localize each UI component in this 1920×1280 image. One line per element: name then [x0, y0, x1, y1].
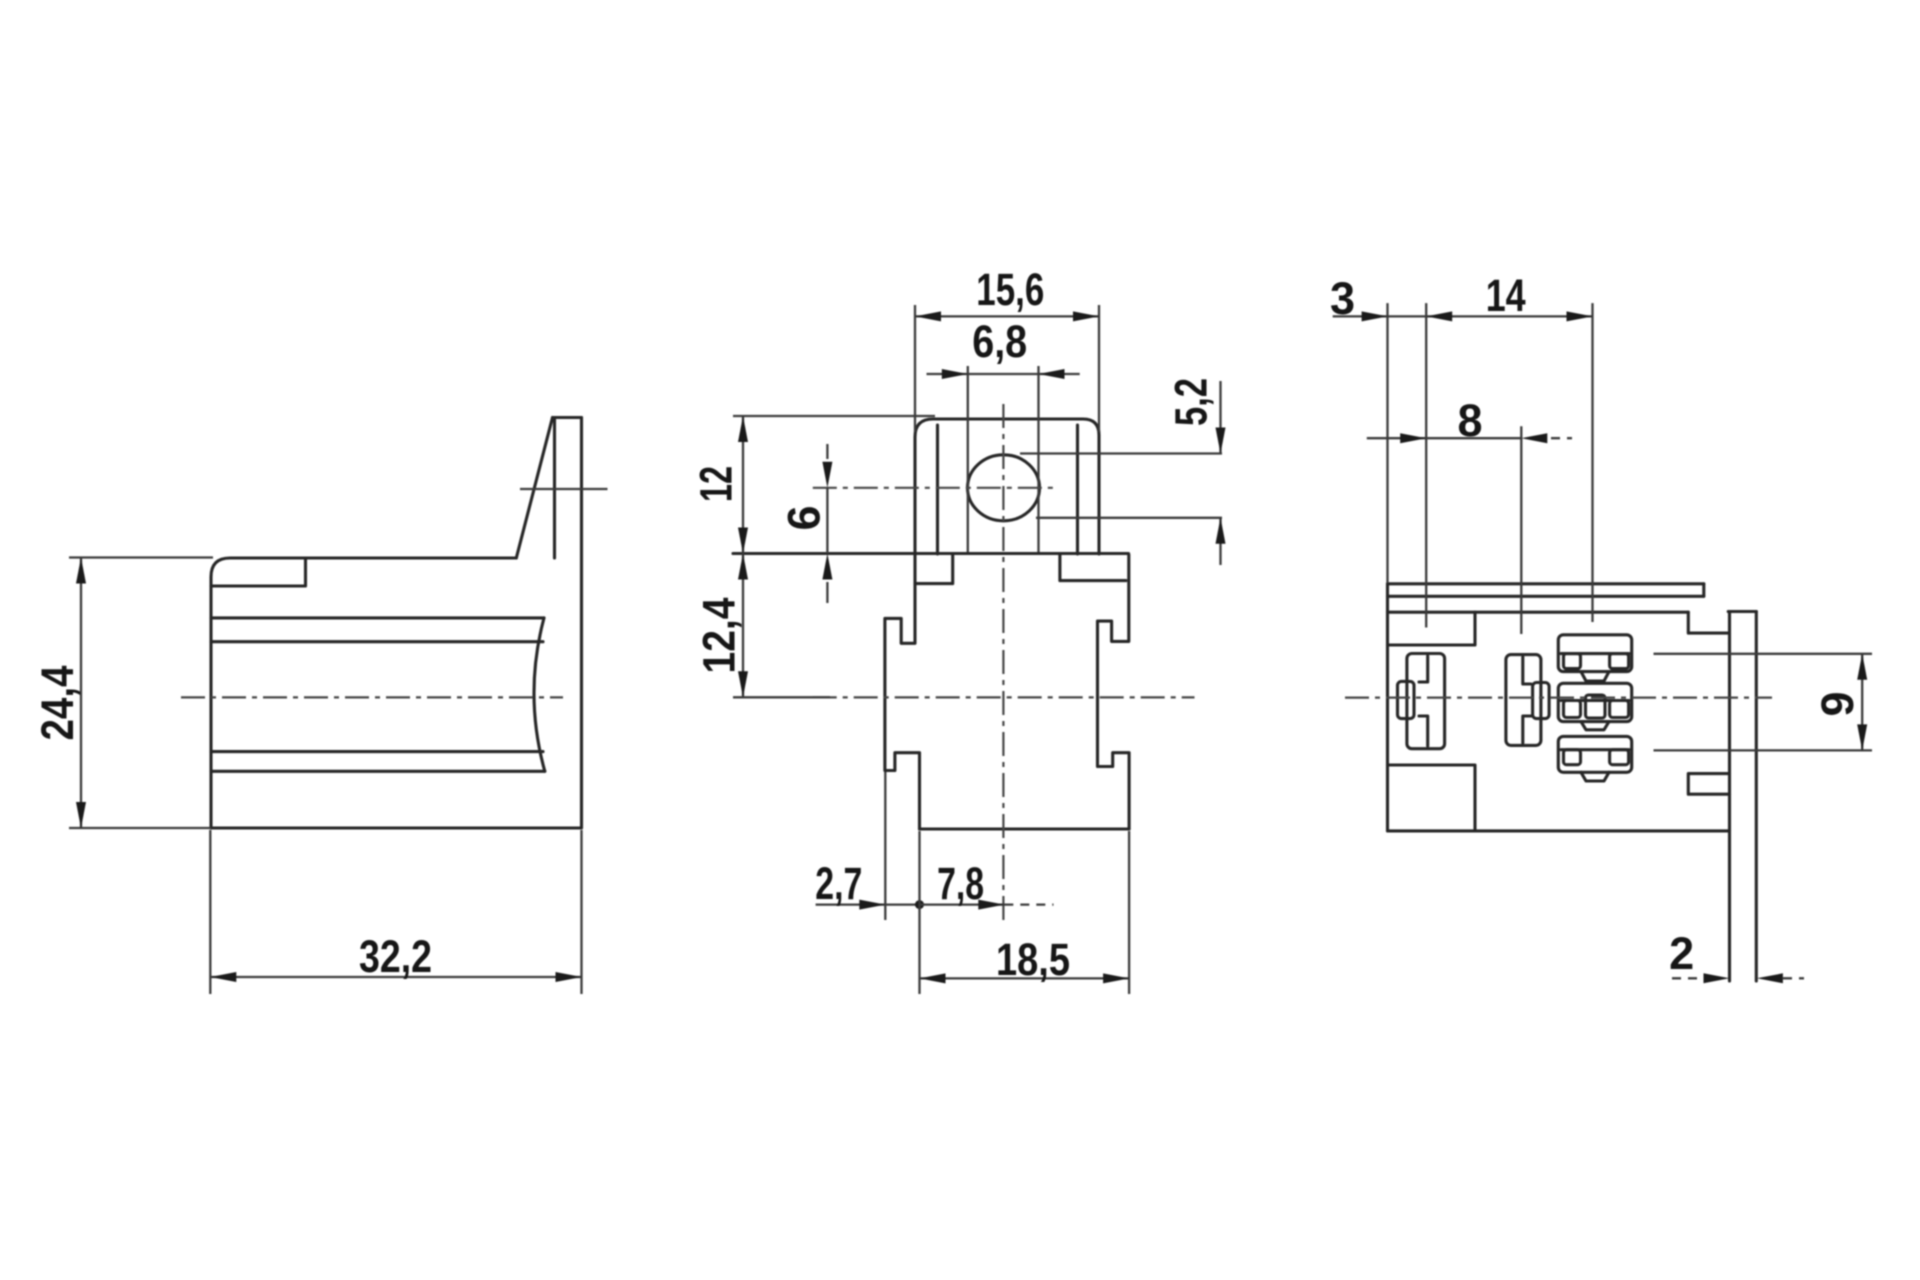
dim 5.2 dimension line lower — [1219, 518, 1221, 565]
latch tab top edge — [553, 416, 582, 419]
interior step bottom-left — [1388, 765, 1476, 831]
body left edge — [1386, 584, 1389, 831]
terminal slot 3 corner box left — [1564, 654, 1581, 669]
inner groove line C — [211, 750, 543, 753]
dim 2 trailing dashes — [1783, 977, 1804, 979]
top edge right connector — [1702, 584, 1705, 597]
dim 24.4 bottom extension line — [69, 827, 211, 829]
svg-text:14: 14 — [1486, 270, 1526, 321]
dim 6 dimension line — [826, 488, 828, 554]
svg-text:6,8: 6,8 — [972, 316, 1027, 367]
dim 2 arrow right — [1757, 973, 1783, 983]
body outline side view — [211, 418, 582, 829]
broken-out section curve — [534, 618, 545, 771]
inner groove line D — [211, 770, 545, 773]
horizontal centerline top view — [1345, 696, 1772, 698]
shoulder line / 12.4 extension — [733, 552, 1129, 555]
vertical centerline front view — [1002, 404, 1004, 922]
svg-text:7,8: 7,8 — [937, 858, 984, 909]
dim 5.2 dimension line upper — [1219, 381, 1221, 454]
dim 12.4 bottom extension line — [733, 696, 830, 698]
svg-text:12,4: 12,4 — [694, 598, 745, 674]
terminal slot 3 outline — [1558, 635, 1631, 672]
dim 5.2 lower pointer line — [1036, 517, 1222, 519]
dim 12 top extension line — [733, 415, 935, 417]
terminal slot 4 corner box right — [1610, 701, 1629, 718]
svg-text:6: 6 — [779, 505, 830, 530]
dim 32.2 dimension line — [210, 976, 581, 978]
right body profile — [1098, 555, 1130, 830]
terminal slot 1 inner line lower — [1419, 716, 1428, 746]
dim 9 lower pointer line — [1654, 749, 1873, 751]
dim 12.4 dimension line — [742, 554, 744, 698]
top edge line 1 — [1388, 582, 1704, 585]
dim 18.5 dimension line — [920, 977, 1130, 979]
dim 15.6 left extension line — [914, 305, 916, 432]
terminal slot 3 bottom tab — [1581, 672, 1609, 681]
svg-text:15,6: 15,6 — [976, 264, 1044, 315]
right notch below shoulder — [1060, 554, 1126, 581]
dim 8 trailing dashes — [1551, 437, 1572, 439]
right side upper notch — [1688, 612, 1729, 633]
bracket inner wall left — [936, 425, 939, 554]
dim 8 right extension line — [1520, 426, 1522, 634]
svg-text:12: 12 — [691, 466, 742, 502]
svg-text:24,4: 24,4 — [32, 666, 83, 741]
dim 14 right extension line — [1591, 303, 1593, 622]
horizontal centerline front view — [813, 696, 1195, 698]
dim 15.6 arrow left — [915, 311, 941, 321]
hole tangent extension line left — [967, 366, 969, 553]
dim 3 left extension line — [1386, 303, 1388, 583]
left body profile — [885, 584, 920, 829]
top edge line 3 — [1388, 611, 1689, 614]
terminal slot 1 inner line upper — [1419, 656, 1428, 682]
dim 3 arrow — [1362, 311, 1388, 321]
dim 14 dimension line — [1426, 315, 1592, 317]
dim 6 leader dashes top — [826, 444, 828, 459]
terminal slot 1 outline — [1407, 654, 1445, 749]
terminal slot 4 corner box left — [1564, 701, 1581, 718]
dim 15.6 right extension line — [1098, 305, 1100, 432]
terminal slot 4 center box — [1586, 695, 1606, 718]
top edge line 2 — [1388, 595, 1704, 598]
dim 12.4 arrow up — [738, 554, 748, 580]
svg-text:2,7: 2,7 — [815, 858, 862, 909]
dim 8 dimension line — [1367, 437, 1522, 439]
hole tangent extension line right — [1037, 366, 1039, 553]
dim 12 arrow up — [738, 416, 748, 442]
terminal slot 2 outline — [1506, 655, 1541, 746]
svg-text:8: 8 — [1457, 395, 1482, 446]
svg-text:5,2: 5,2 — [1165, 378, 1216, 426]
latch tab inner vertical — [553, 419, 556, 558]
flange right edge — [1755, 612, 1758, 982]
flange top edge — [1728, 610, 1756, 613]
dim 2 leading dashes — [1672, 977, 1701, 979]
mounting hole — [968, 455, 1040, 521]
body bottom edge — [1388, 829, 1730, 832]
flange left edge — [1728, 612, 1731, 982]
dim 18.5 right extension line — [1128, 831, 1130, 994]
dim 5.2 arrow down — [1216, 428, 1226, 454]
terminal slot 5 corner box right — [1610, 750, 1629, 765]
dim 24.4 arrow down — [76, 802, 86, 828]
terminal slot 2 side bump — [1533, 683, 1550, 719]
dim 24.4 arrow up — [76, 558, 86, 584]
svg-text:9: 9 — [1812, 691, 1863, 716]
dim 24.4 dimension line — [80, 558, 82, 829]
dim 6 arrow down — [822, 462, 832, 488]
svg-text:2: 2 — [1669, 928, 1694, 979]
dim 6.8 arrow left — [942, 369, 968, 379]
terminal slot 5 inner line — [1561, 748, 1629, 751]
latch tab slanted edge — [516, 418, 552, 559]
dim 2 arrow left — [1704, 973, 1730, 983]
terminal slot 3 inner line — [1561, 652, 1629, 655]
hole horizontal centerline — [813, 487, 1058, 489]
dim 12 arrow down — [738, 528, 748, 554]
dim 2.7 extension line — [884, 772, 886, 920]
dim 32.2 arrow right — [556, 972, 582, 982]
svg-text:18,5: 18,5 — [996, 934, 1070, 985]
dim 32.2 right extension line — [580, 830, 582, 994]
top-left step recess — [211, 558, 306, 586]
dim 18.5 left extension line — [918, 831, 920, 994]
terminal slot 4 bottom tab — [1581, 722, 1609, 730]
dim 2.7 dimension line — [816, 903, 920, 905]
inner groove line A — [211, 616, 544, 619]
dim 12 dimension line — [742, 416, 744, 554]
dim 8 arrow left — [1400, 433, 1426, 443]
terminal slot 5 bottom tab — [1581, 772, 1609, 781]
svg-text:32,2: 32,2 — [359, 931, 432, 982]
dim 6 arrow up — [822, 554, 832, 580]
terminal slot 2 inner line upper — [1523, 657, 1531, 684]
dim 9 dimension line — [1861, 654, 1863, 751]
dim 2.7 arrow — [859, 900, 885, 910]
left notch below shoulder — [915, 554, 953, 584]
mounting bracket outline — [915, 419, 1099, 554]
dim 18.5 arrow right — [1103, 973, 1129, 983]
dim 6.8 dimension line — [927, 373, 1080, 375]
dim 14 arrow right — [1567, 311, 1593, 321]
bracket inner wall right — [1076, 425, 1079, 554]
dim 9 arrow up — [1857, 654, 1867, 680]
dim 6.8 arrow right — [1039, 369, 1065, 379]
dim 5.2 upper pointer line — [1020, 452, 1222, 454]
dim 7.8 trailing dashes — [1004, 903, 1053, 905]
svg-text:3: 3 — [1330, 273, 1355, 324]
right side lower notch — [1688, 774, 1729, 795]
dim 9 arrow down — [1857, 724, 1867, 750]
dim 32.2 left extension line — [209, 830, 211, 994]
dim 15.6 dimension line — [915, 315, 1099, 317]
inner groove line B — [211, 640, 543, 643]
dim 15.6 arrow right — [1073, 311, 1099, 321]
dim 8 arrow right — [1521, 433, 1547, 443]
terminal slot 4 outline — [1558, 683, 1631, 721]
dim 5.2 arrow up — [1216, 518, 1226, 544]
dim 32.2 arrow left — [210, 972, 236, 982]
dim 3 dimension line — [1333, 315, 1427, 317]
dim 18.5 arrow left — [920, 973, 946, 983]
terminal slot 5 outline — [1558, 736, 1631, 772]
terminal slot 1 side bump — [1398, 681, 1415, 718]
horizontal centerline left view — [181, 696, 563, 698]
dim 14 arrow left — [1426, 311, 1452, 321]
dim 9 upper pointer line — [1654, 653, 1873, 655]
interior step top-left — [1388, 612, 1476, 645]
dim 6 leader dashes bottom — [826, 582, 828, 603]
dim 7.8 dimension line — [920, 903, 1005, 905]
latch centerline tick — [520, 488, 608, 490]
terminal slot 4 inner line — [1561, 699, 1629, 702]
terminal slot 5 corner box left — [1564, 750, 1581, 765]
dim 12.4 arrow down — [738, 671, 748, 697]
body bottom edge — [920, 827, 1130, 830]
dim 24.4 top extension line — [69, 556, 213, 558]
dim 2.7 origin dot — [915, 900, 924, 909]
dim 7.8 arrow — [978, 900, 1004, 910]
terminal slot 3 corner box right — [1610, 654, 1629, 669]
dim 3-14-8 shared extension line — [1425, 303, 1427, 627]
terminal slot 2 inner line lower — [1523, 716, 1531, 743]
